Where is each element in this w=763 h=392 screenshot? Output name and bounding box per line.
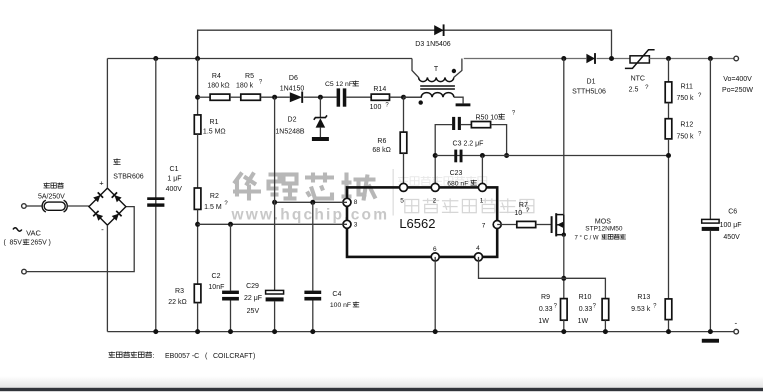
node junction [153,56,158,61]
svg-text:1: 1 [480,198,484,205]
label pin2 [433,198,437,205]
svg-text:0.33: 0.33 [539,306,553,313]
node junction [228,329,233,334]
node transformer primary dot [452,69,456,73]
node junction [310,200,315,205]
svg-text:0.33: 0.33 [579,306,593,313]
wire [274,301,276,331]
resistor R6 [400,132,407,153]
label minus [734,319,737,328]
svg-text:1N5248B: 1N5248B [275,129,305,136]
svg-text:1W: 1W [538,318,549,325]
svg-text:2: 2 [433,198,437,205]
svg-text:180 kΩ: 180 kΩ [207,82,229,89]
capacitor C29 [266,290,284,301]
wire [479,257,606,299]
node junction [504,153,509,158]
svg-text:D3 1N5406: D3 1N5406 [415,41,451,48]
label C2 [208,273,224,291]
diode D1 [586,53,595,64]
svg-text:Vo=400V: Vo=400V [723,76,752,83]
svg-text:R4: R4 [212,73,221,80]
capacitor C4 [304,291,321,301]
pin 6 [431,253,439,261]
svg-text:C2: C2 [212,273,221,280]
label inductor spec [109,352,256,360]
capacitor C23 [454,150,462,163]
label pin7 [482,223,486,230]
node junction [272,200,277,205]
label C1 [166,166,183,193]
svg-text:8: 8 [354,199,358,206]
node junction [666,153,671,158]
wire [403,97,405,132]
label D6 [280,75,305,92]
svg-text:T: T [434,66,439,73]
diode D3 [434,24,443,36]
wire drain [563,59,565,215]
diode D6 [290,92,302,103]
label bridge minus [101,225,104,234]
transistor Q1 MOS STP12NM50 [552,213,566,237]
svg-text:): ) [253,353,255,360]
label output [722,76,753,94]
label bridge name [113,158,143,180]
diode zener D2 [314,115,327,127]
resistor R14 [371,94,389,100]
label bridge plus [99,178,104,187]
wire [155,59,157,332]
node output minus terminal [734,329,739,334]
wire [709,231,711,332]
svg-text:NTC: NTC [631,76,645,83]
svg-text:7: 7 [482,223,486,230]
resistor R9 [561,299,568,321]
svg-text:1.5 MΩ: 1.5 MΩ [203,129,226,136]
label C5 [325,81,359,88]
label C3 [453,140,484,147]
node junction [561,56,566,61]
resistor R11 [665,82,672,103]
node junction [318,95,323,100]
wire [197,303,199,332]
transformer core [420,86,455,89]
wire [319,128,321,137]
svg-text:+: + [99,178,104,187]
svg-text:D6: D6 [289,75,298,82]
svg-text:R10: R10 [579,294,592,301]
wire [319,97,321,117]
svg-text:): ) [49,240,51,247]
svg-text:C1: C1 [170,166,179,173]
wire [197,209,199,284]
svg-text:22 μF: 22 μF [244,295,262,302]
wire feedback rail [435,155,668,157]
svg-text:www.hqchip.com: www.hqchip.com [231,207,390,224]
node junction [401,95,406,100]
wire [536,224,551,226]
svg-text:9.53 k: 9.53 k [631,306,651,313]
label R7 [514,202,530,217]
wire [563,320,565,331]
wire [649,58,734,60]
svg-text:R11: R11 [681,84,693,91]
svg-text:R14: R14 [373,86,386,93]
label R6 [372,138,390,154]
svg-text:R13: R13 [637,294,650,301]
capacitor C1 [147,197,164,206]
wire [390,96,423,98]
svg-text:100: 100 [370,104,382,111]
ground [702,339,719,343]
svg-text:C29: C29 [246,283,259,290]
pin 8 [343,198,351,206]
svg-text:R6: R6 [377,138,386,145]
svg-text:22 kΩ: 22 kΩ [168,299,186,306]
svg-text:1W: 1W [578,318,589,325]
svg-text:D2: D2 [288,116,297,123]
node junction [433,329,438,334]
wire [26,207,134,272]
label R13 [631,294,657,313]
svg-text:750 k: 750 k [676,95,694,102]
svg-text:6: 6 [433,246,437,253]
svg-text:STTH5L06: STTH5L06 [572,89,606,96]
node junction [153,329,158,334]
svg-text:R9: R9 [541,294,550,301]
capacitor C3 [452,117,461,130]
svg-text:-: - [101,225,104,234]
wire [491,125,507,156]
ground [456,103,471,106]
node junction [195,95,200,100]
node junction [666,329,671,334]
svg-text:10: 10 [514,210,522,217]
label R12 [676,122,702,141]
resistor R12 [665,119,672,139]
label VAC [13,228,42,238]
wire [434,257,436,332]
resistor R50 [471,122,490,128]
label R14 [370,86,390,111]
node junction [708,56,713,61]
label C29 [244,283,262,315]
svg-text:-: - [734,319,737,328]
svg-text:3: 3 [354,222,358,229]
label R2 [204,193,228,211]
svg-text:5: 5 [400,198,404,205]
svg-text:100 μF: 100 μF [720,222,742,229]
label pin4 [476,245,480,252]
wire [230,224,232,290]
wire [312,202,314,290]
pin 2 [431,183,439,191]
label fuse [38,183,65,201]
transformer T secondary [404,93,464,104]
node junction [666,56,671,61]
svg-text:Po=250W: Po=250W [722,87,753,94]
wire [106,59,108,189]
wire [230,96,241,98]
label C6 [720,209,742,242]
wire top bus [198,30,612,58]
wire [668,59,670,82]
svg-text:2.5: 2.5 [629,87,639,94]
node AC live terminal [22,204,27,209]
svg-text:68 kΩ: 68 kΩ [372,147,390,154]
wire [403,153,405,187]
svg-text:EB0057 -C: EB0057 -C [165,353,199,360]
svg-text:R1: R1 [210,119,219,126]
svg-text:1.5 M: 1.5 M [204,204,222,211]
ground [312,137,329,141]
svg-text:400V: 400V [166,186,183,193]
svg-text:25V: 25V [247,308,260,315]
svg-text:265V: 265V [31,240,48,247]
node junction [272,95,277,100]
label C4 [330,291,359,309]
wire [274,97,276,290]
wire [435,125,452,188]
label R4 [207,73,229,89]
thermistor NTC [625,50,655,69]
label C23 [447,170,477,187]
node junction [195,329,200,334]
svg-text:C4: C4 [332,291,341,298]
capacitor C6 [702,219,719,231]
node junction [561,276,566,281]
node junction [195,56,200,61]
resistor R7 [517,221,536,227]
pin 4 [475,253,483,261]
wire [198,223,347,225]
label pin8 [354,199,358,206]
wire [230,301,232,332]
wire [275,201,347,203]
resistor R10 [602,299,609,321]
wire dc rail left [107,58,412,60]
wire [461,124,472,126]
node junction [433,153,438,158]
svg-text:D1: D1 [587,79,596,86]
wire [668,139,670,299]
wire [197,59,199,115]
svg-text:STP12NM50: STP12NM50 [585,226,623,233]
svg-text:C3 2.2 μF: C3 2.2 μF [453,140,484,147]
label pin6 [433,246,437,253]
wire [346,96,371,98]
label D2 [275,116,305,135]
label R50 [476,111,516,122]
label pin3 [354,222,358,229]
bridge rectifier BR1 STBR606 [89,188,126,225]
label D1 [572,79,606,96]
pin 5 [400,183,408,191]
wire [709,59,711,220]
fuse F1 5A/250V [42,200,67,212]
resistor R1 [194,115,201,134]
svg-text:5A/250V: 5A/250V [38,193,65,200]
wire [198,96,211,98]
svg-text:1N4150: 1N4150 [280,85,305,92]
node junction [561,329,566,334]
resistor R13 [665,299,672,320]
capacitor C2 [222,291,239,301]
svg-text:R3: R3 [175,288,184,295]
wire [481,156,483,188]
wire [312,301,314,332]
svg-text:R5: R5 [245,73,254,80]
label R9 [538,294,557,325]
svg-text:L6562: L6562 [399,216,435,231]
svg-text:COILCRAFT: COILCRAFT [213,353,253,360]
label pin1 [480,198,484,205]
svg-text:C5 12 nF: C5 12 nF [325,81,353,88]
label R11 [676,84,702,103]
label R5 [236,73,263,89]
label R10 [578,294,597,325]
wire [106,225,108,332]
node junction [272,329,277,334]
node junction [195,222,200,227]
node junction [310,329,315,334]
node junction [609,56,614,61]
label R1 [203,119,226,136]
label MOS [575,219,626,242]
svg-text:1 μF: 1 μF [167,175,181,182]
label input range [4,239,51,247]
svg-text:C23: C23 [450,170,463,177]
svg-text:100 nF: 100 nF [330,302,351,309]
resistor R2 [194,188,201,209]
wire [604,320,606,331]
svg-text:MOS: MOS [595,219,611,226]
svg-text:R50 10: R50 10 [476,114,499,121]
wire [597,58,631,60]
svg-text:R12: R12 [680,122,693,129]
resistor R4 [210,94,230,100]
label T [434,66,439,73]
label R3 [168,288,186,306]
svg-text:4: 4 [476,245,480,252]
wire dc rail right [464,58,586,60]
wire [197,134,199,188]
wire source [563,235,565,299]
node junction [228,222,233,227]
op-amp U1 L6562 body [347,187,497,257]
label D3 [415,41,451,48]
svg-text:180 k: 180 k [236,82,254,89]
node junction [708,329,713,334]
pin 7 [493,221,501,229]
svg-text:VAC: VAC [26,228,41,237]
node output plus terminal [734,56,739,61]
transformer T primary [412,59,462,82]
label pin5 [400,198,404,205]
svg-text:85V: 85V [10,240,23,247]
svg-text:10nF: 10nF [208,284,224,291]
label NTC [629,76,649,94]
svg-text:STBR606: STBR606 [113,174,143,181]
node junction [603,329,608,334]
node AC neutral terminal [22,269,27,274]
wire [497,224,517,226]
wire ground rail [107,331,734,333]
resistor R3 [194,284,201,303]
svg-text:450V: 450V [723,234,740,241]
label U1 [399,216,435,231]
capacitor C5 [337,88,347,106]
svg-text:7 ° C / W: 7 ° C / W [575,235,599,241]
node junction [480,153,485,158]
svg-text::: : [153,353,155,360]
wire [26,205,41,207]
resistor R5 [241,94,261,100]
node transformer secondary dot [419,100,423,104]
svg-text:750 k: 750 k [676,134,694,141]
wire [668,103,670,119]
wire [304,96,337,98]
pin 1 [478,183,486,191]
wire [68,205,89,207]
svg-text:C6: C6 [728,209,737,216]
wire [260,96,289,98]
pin 3 [343,220,351,228]
svg-text:R2: R2 [210,193,219,200]
wire [668,320,670,332]
